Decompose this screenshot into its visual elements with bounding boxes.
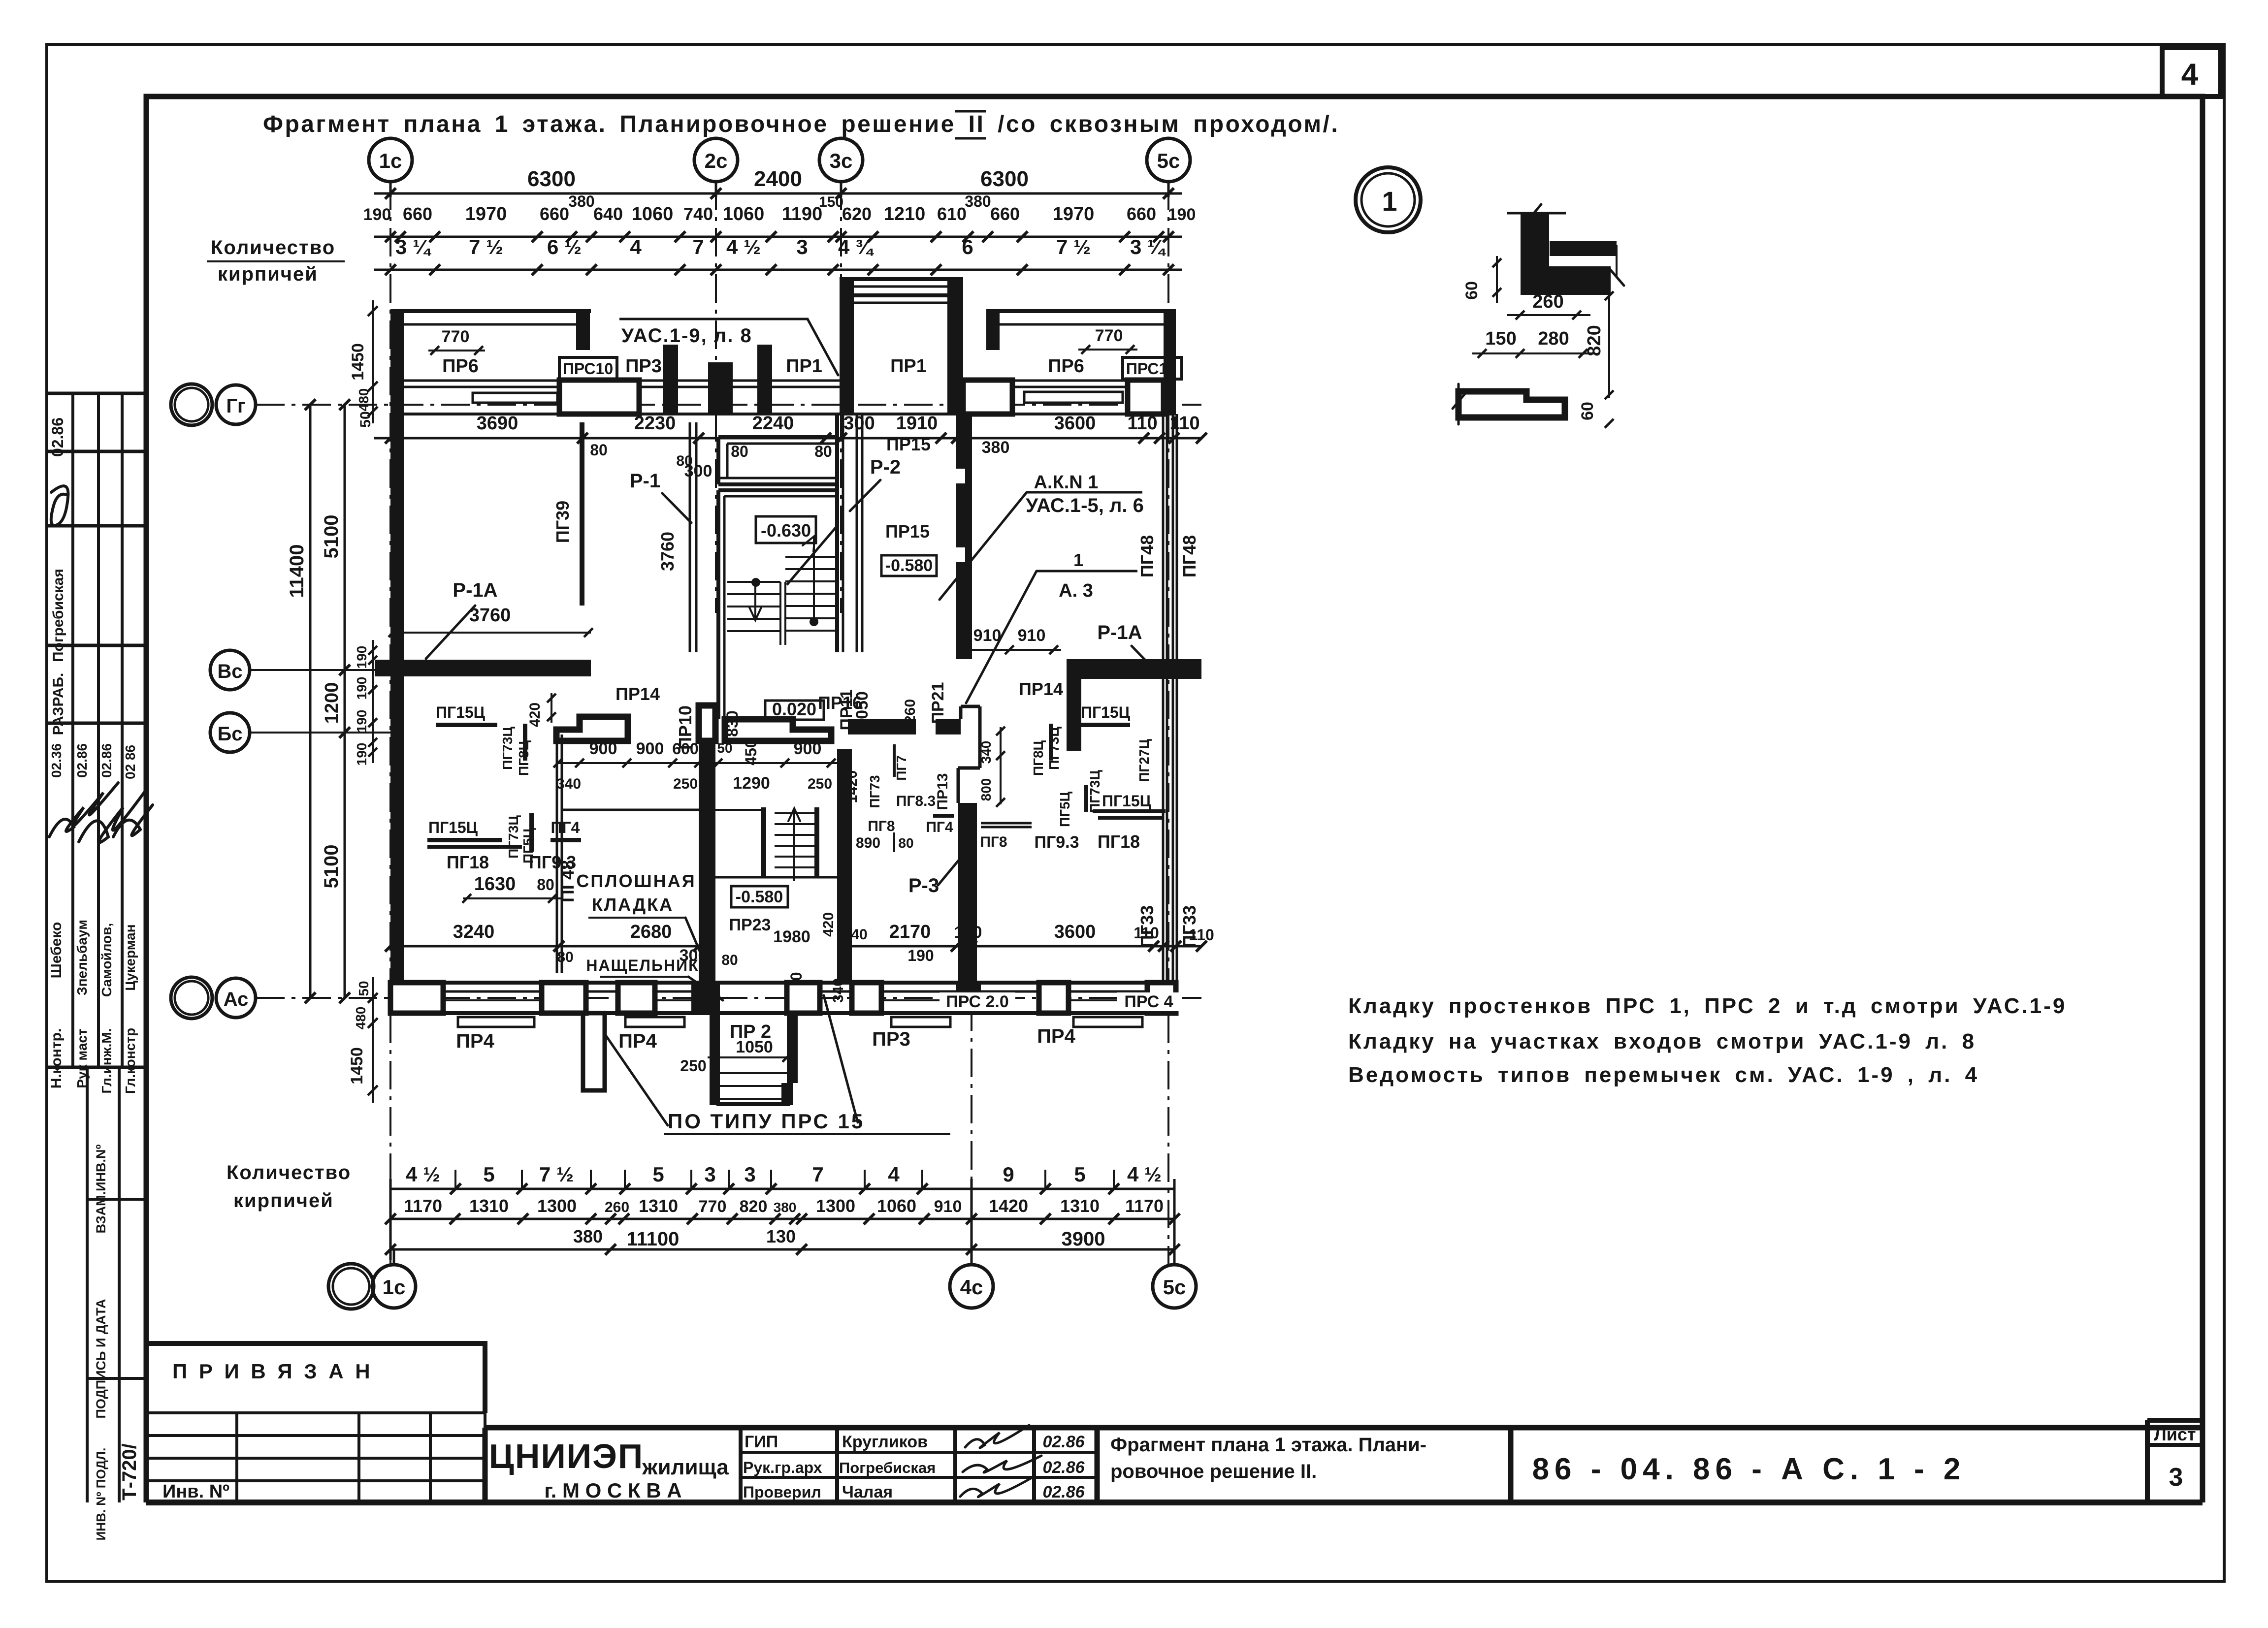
svg-text:2170: 2170 bbox=[889, 922, 931, 942]
svg-text:4: 4 bbox=[630, 235, 642, 258]
svg-text:4 ¾: 4 ¾ bbox=[838, 235, 874, 258]
elevation box -0.580 lower bbox=[731, 886, 788, 907]
bay 2 left wall bbox=[986, 311, 1000, 350]
wall right room divider bbox=[1067, 679, 1081, 751]
svg-text:80: 80 bbox=[898, 835, 913, 851]
top axis circles bbox=[369, 138, 412, 182]
window glazing 2c right bbox=[733, 380, 757, 382]
right exterior wall at 5c double thin lines bbox=[1162, 414, 1165, 659]
corridor wall R-1A left bbox=[375, 660, 591, 676]
left 190 sub chain bbox=[372, 640, 374, 763]
svg-text:5: 5 bbox=[652, 1163, 664, 1186]
svg-text:640: 640 bbox=[593, 204, 623, 224]
svg-text:Бс: Бс bbox=[218, 723, 243, 745]
svg-text:Самойлов,: Самойлов, bbox=[99, 923, 114, 997]
pier right of passage bbox=[963, 380, 1012, 414]
lower stair arrow bbox=[793, 810, 795, 881]
svg-text:ПР13: ПР13 bbox=[935, 773, 951, 810]
svg-text:660: 660 bbox=[403, 204, 432, 224]
svg-text:1310: 1310 bbox=[639, 1196, 678, 1216]
note UAS.1-9 l.8 bbox=[619, 318, 736, 320]
dim 770 left bay bbox=[428, 350, 485, 351]
svg-text:ЦНИИЭП: ЦНИИЭП bbox=[489, 1437, 644, 1475]
svg-text:5100: 5100 bbox=[321, 515, 342, 559]
pier at axis 2c bbox=[708, 362, 733, 414]
svg-text:3: 3 bbox=[744, 1163, 755, 1186]
pier under bay1 right wall bbox=[559, 380, 639, 414]
svg-text:1300: 1300 bbox=[816, 1196, 855, 1216]
door notches 4c wall bbox=[956, 469, 965, 483]
top band bottom edge bbox=[390, 413, 1176, 415]
svg-text:ПГ73Ц: ПГ73Ц bbox=[506, 815, 521, 859]
wall at 2c lower bbox=[699, 741, 715, 985]
svg-text:3900: 3900 bbox=[1062, 1228, 1105, 1250]
elevation box 0.020 bbox=[765, 701, 824, 720]
svg-text:1050: 1050 bbox=[736, 1038, 773, 1056]
svg-text:80: 80 bbox=[731, 443, 748, 460]
svg-text:4 ½: 4 ½ bbox=[406, 1163, 440, 1186]
svg-text:0.020: 0.020 bbox=[772, 699, 816, 719]
svg-text:40: 40 bbox=[851, 926, 867, 943]
window PR6 left glazing bbox=[404, 380, 559, 382]
svg-text:-0.630: -0.630 bbox=[761, 520, 811, 541]
axis dash-dot horizontals bbox=[256, 404, 1201, 406]
svg-text:ПГ15Ц: ПГ15Ц bbox=[1081, 703, 1131, 721]
svg-text:260: 260 bbox=[1532, 291, 1563, 312]
svg-text:ПР14: ПР14 bbox=[616, 684, 660, 704]
svg-text:890: 890 bbox=[856, 835, 880, 851]
svg-text:3: 3 bbox=[2169, 1463, 2183, 1492]
svg-text:610: 610 bbox=[937, 204, 967, 224]
corridor dim row 900 900 600 50 900 bbox=[558, 762, 837, 764]
svg-text:86 - 04. 86 - А С. 1 - 2: 86 - 04. 86 - А С. 1 - 2 bbox=[1532, 1452, 1966, 1486]
svg-text:3240: 3240 bbox=[453, 922, 495, 942]
top band bay 1 right wall bbox=[576, 311, 590, 350]
svg-text:Гл.констр: Гл.констр bbox=[123, 1028, 138, 1094]
roman numeral strokes bbox=[955, 110, 986, 113]
window PR1 left glazing bbox=[772, 380, 840, 382]
svg-text:ПР15: ПР15 bbox=[886, 434, 931, 454]
svg-text:190: 190 bbox=[354, 710, 369, 733]
corridor wall R-1A right bbox=[1067, 659, 1201, 679]
svg-text:80: 80 bbox=[721, 952, 738, 968]
svg-text:660: 660 bbox=[1127, 204, 1156, 224]
passage left wall bbox=[840, 279, 854, 414]
top chain brick count line bbox=[374, 269, 1182, 271]
stair upper left flight treads bbox=[727, 581, 780, 583]
svg-text:1170: 1170 bbox=[1125, 1196, 1164, 1216]
svg-text:ПГ8: ПГ8 bbox=[980, 834, 1007, 850]
svg-text:ПР4: ПР4 bbox=[618, 1030, 657, 1052]
svg-text:7: 7 bbox=[812, 1163, 823, 1186]
svg-text:А. 3: А. 3 bbox=[1059, 580, 1093, 601]
svg-text:480: 480 bbox=[356, 388, 371, 412]
detail right break tick bbox=[1609, 268, 1624, 286]
svg-text:190: 190 bbox=[363, 205, 391, 224]
svg-text:380: 380 bbox=[568, 192, 594, 210]
svg-text:1300: 1300 bbox=[537, 1196, 577, 1216]
svg-text:250: 250 bbox=[680, 1057, 706, 1075]
svg-text:3с: 3с bbox=[830, 149, 853, 172]
bottom axis circles bbox=[328, 1264, 374, 1309]
svg-text:1с: 1с bbox=[383, 1276, 406, 1299]
svg-text:380: 380 bbox=[573, 1226, 603, 1246]
bottom mm chain line bbox=[390, 1218, 1174, 1220]
svg-text:380: 380 bbox=[965, 192, 991, 210]
svg-text:740: 740 bbox=[683, 204, 713, 224]
dim 770 right bay bbox=[1078, 349, 1137, 351]
svg-text:ГИП: ГИП bbox=[745, 1433, 778, 1451]
svg-text:3760: 3760 bbox=[469, 605, 511, 626]
svg-text:1980: 1980 bbox=[773, 927, 810, 946]
bearing wall at 3c upper double bbox=[835, 414, 839, 652]
list cell bbox=[2147, 1418, 2203, 1423]
svg-text:02.86: 02.86 bbox=[49, 417, 66, 457]
svg-text:60: 60 bbox=[1578, 402, 1597, 420]
svg-text:1060: 1060 bbox=[723, 204, 765, 224]
svg-text:3 ¼: 3 ¼ bbox=[1130, 235, 1166, 258]
svg-text:ПГ8.3: ПГ8.3 bbox=[896, 793, 936, 809]
label PRS20 bbox=[940, 992, 1015, 1011]
left exterior wall bbox=[390, 414, 404, 660]
svg-text:3: 3 bbox=[796, 235, 808, 258]
svg-text:Гл.инж.М.: Гл.инж.М. bbox=[99, 1028, 114, 1094]
svg-text:ПГ4: ПГ4 bbox=[551, 819, 580, 836]
svg-text:190: 190 bbox=[954, 923, 982, 942]
svg-text:5с: 5с bbox=[1163, 1276, 1186, 1299]
bottom wall piers bbox=[390, 983, 443, 1013]
exit stair bottom edge bbox=[716, 1102, 790, 1106]
svg-text:1170: 1170 bbox=[404, 1196, 442, 1216]
svg-text:4 ½: 4 ½ bbox=[726, 235, 761, 258]
svg-text:г. М О С К В А: г. М О С К В А bbox=[544, 1479, 681, 1502]
window glazing 2c left bbox=[678, 380, 708, 382]
svg-text:3 ¼: 3 ¼ bbox=[395, 235, 431, 258]
svg-text:1с: 1с bbox=[379, 149, 402, 172]
pocket jog walls at 4c bbox=[959, 706, 963, 719]
svg-text:ПГ8Ц: ПГ8Ц bbox=[1031, 740, 1046, 776]
svg-text:УАС.1-9, л. 8: УАС.1-9, л. 8 bbox=[621, 325, 752, 347]
window sill block left bbox=[473, 393, 557, 403]
svg-text:ПГ48: ПГ48 bbox=[557, 860, 578, 902]
svg-text:Количество: Количество bbox=[227, 1162, 351, 1183]
svg-text:Кругликов: Кругликов bbox=[842, 1433, 928, 1451]
svg-text:420: 420 bbox=[527, 702, 543, 727]
sheet number box 4 bbox=[2162, 48, 2221, 96]
svg-text:380: 380 bbox=[982, 438, 1010, 457]
svg-text:Количество: Количество bbox=[211, 237, 335, 258]
svg-text:150: 150 bbox=[1485, 328, 1516, 349]
top chain axis spans line bbox=[374, 192, 1182, 195]
detail lower wall piece bbox=[1458, 391, 1565, 417]
svg-text:11100: 11100 bbox=[627, 1228, 680, 1250]
svg-text:ПР1: ПР1 bbox=[786, 356, 822, 377]
svg-text:А.К.N 1: А.К.N 1 bbox=[1034, 472, 1099, 493]
svg-text:900: 900 bbox=[589, 739, 617, 758]
svg-text:ровочное решение II.: ровочное решение II. bbox=[1110, 1461, 1317, 1482]
svg-text:1190: 1190 bbox=[782, 204, 822, 224]
detail dims 150 280 bbox=[1472, 352, 1595, 354]
svg-text:Проверил: Проверил bbox=[743, 1483, 821, 1501]
dim 800 340 small right bbox=[1000, 727, 1002, 804]
stairwell wall continuation to band bbox=[716, 652, 720, 719]
svg-text:900: 900 bbox=[636, 739, 664, 758]
svg-text:02.86: 02.86 bbox=[74, 743, 90, 778]
left axis circles bbox=[171, 384, 212, 425]
svg-text:380: 380 bbox=[774, 1200, 797, 1215]
dim row 3240 2680 bbox=[390, 945, 706, 948]
bottom wall sill blocks bbox=[458, 1017, 534, 1027]
svg-text:6300: 6300 bbox=[980, 167, 1029, 191]
detail upper right bar bbox=[1550, 241, 1617, 256]
detail dim 60 bottom bbox=[1605, 419, 1614, 428]
svg-text:ПГ15Ц: ПГ15Ц bbox=[436, 703, 486, 721]
svg-text:ПР6: ПР6 bbox=[442, 356, 479, 377]
svg-text:3: 3 bbox=[704, 1163, 715, 1186]
svg-text:190: 190 bbox=[354, 743, 369, 766]
left storey chain 5100 1200 5100 bbox=[344, 405, 346, 998]
dim line 3690 row bbox=[374, 437, 1201, 440]
svg-text:2400: 2400 bbox=[754, 167, 802, 191]
svg-text:480: 480 bbox=[353, 1007, 368, 1030]
top left small chain 1450 480 50 bbox=[372, 300, 374, 423]
exit stair walls bbox=[710, 1013, 720, 1105]
partition PG48 left apartment bbox=[556, 734, 558, 973]
central wall band right of stair bbox=[848, 719, 916, 734]
svg-text:Цукерман: Цукерман bbox=[123, 924, 138, 990]
svg-text:ПРС 4: ПРС 4 bbox=[1124, 992, 1173, 1011]
svg-text:Погребиская: Погребиская bbox=[839, 1459, 936, 1476]
svg-text:300: 300 bbox=[843, 413, 875, 434]
svg-text:ПРС10: ПРС10 bbox=[1126, 360, 1176, 378]
svg-text:УАС.1-5, л. 6: УАС.1-5, л. 6 bbox=[1026, 495, 1144, 516]
svg-text:Лист: Лист bbox=[2154, 1424, 2196, 1444]
lower stair enclosure bbox=[761, 807, 766, 877]
svg-text:340: 340 bbox=[556, 776, 581, 792]
passage right wall bbox=[947, 279, 963, 414]
stamp lower band cells bbox=[86, 1067, 89, 1502]
svg-text:ПР1: ПР1 bbox=[890, 356, 927, 377]
top band bay 1 top edge bbox=[390, 309, 591, 313]
svg-text:Зпельбаум: Зпельбаум bbox=[74, 920, 90, 995]
svg-text:ПР15: ПР15 bbox=[885, 521, 930, 542]
svg-text:ИНВ. Nº ПОДЛ.: ИНВ. Nº ПОДЛ. bbox=[94, 1448, 108, 1541]
svg-text:Погребиская: Погребиская bbox=[50, 569, 66, 662]
svg-text:02.86: 02.86 bbox=[1042, 1483, 1085, 1501]
bottom brick count line bbox=[390, 1188, 1174, 1190]
svg-text:1420: 1420 bbox=[989, 1196, 1028, 1216]
svg-text:ПГ18: ПГ18 bbox=[447, 852, 489, 872]
svg-text:300: 300 bbox=[684, 462, 713, 480]
svg-text:ПОДПИСЬ И ДАТА: ПОДПИСЬ И ДАТА bbox=[94, 1299, 108, 1418]
svg-text:50: 50 bbox=[717, 740, 732, 756]
svg-text:Р-2: Р-2 bbox=[870, 456, 901, 478]
svg-text:11400: 11400 bbox=[286, 544, 308, 598]
detail node circle 1 bbox=[1356, 167, 1421, 232]
svg-text:830: 830 bbox=[723, 710, 741, 736]
title block row lines bbox=[741, 1451, 1097, 1454]
pier stub left of passage bbox=[663, 345, 678, 414]
svg-text:Р-3: Р-3 bbox=[908, 875, 939, 896]
svg-text:ПГ27Ц: ПГ27Ц bbox=[1136, 739, 1152, 782]
svg-text:ПГ48: ПГ48 bbox=[1179, 535, 1199, 577]
svg-text:РАЗРАБ.: РАЗРАБ. bbox=[50, 673, 66, 735]
svg-text:-0.580: -0.580 bbox=[885, 556, 933, 575]
svg-text:ПГ73: ПГ73 bbox=[867, 775, 882, 808]
svg-text:Р-1А: Р-1А bbox=[1097, 622, 1142, 643]
svg-text:1450: 1450 bbox=[348, 1047, 366, 1085]
svg-text:3690: 3690 bbox=[477, 413, 518, 434]
svg-text:260: 260 bbox=[902, 699, 918, 724]
svg-text:250: 250 bbox=[673, 776, 698, 792]
svg-text:300: 300 bbox=[680, 946, 708, 965]
svg-text:660: 660 bbox=[540, 204, 569, 224]
stair upper right flight treads bbox=[785, 556, 837, 558]
svg-text:50: 50 bbox=[356, 981, 371, 996]
svg-text:1310: 1310 bbox=[1060, 1196, 1100, 1216]
stamp signature oval bbox=[51, 486, 68, 525]
svg-text:80: 80 bbox=[537, 876, 554, 894]
elevation box -0.580 upper bbox=[881, 555, 937, 576]
svg-text:02 86: 02 86 bbox=[123, 745, 138, 779]
svg-text:150: 150 bbox=[819, 194, 843, 210]
svg-text:130: 130 bbox=[766, 1226, 796, 1246]
pier stub right bbox=[757, 345, 772, 414]
partition right of 3c wall bbox=[856, 414, 858, 652]
svg-text:1630: 1630 bbox=[474, 874, 516, 894]
svg-text:1200: 1200 bbox=[322, 682, 342, 724]
svg-text:ПГ48: ПГ48 bbox=[1137, 535, 1157, 577]
svg-text:2240: 2240 bbox=[752, 413, 794, 434]
svg-text:ПРС10: ПРС10 bbox=[563, 360, 613, 378]
svg-text:770: 770 bbox=[442, 327, 470, 346]
title block verticals bbox=[483, 1428, 488, 1502]
svg-text:Шебеко: Шебеко bbox=[48, 922, 65, 979]
svg-text:190: 190 bbox=[354, 677, 369, 700]
svg-text:02.86: 02.86 bbox=[1042, 1458, 1085, 1477]
svg-text:4с: 4с bbox=[960, 1276, 983, 1299]
wall at 4c lower bbox=[958, 803, 977, 985]
svg-text:ПР23: ПР23 bbox=[729, 916, 771, 934]
svg-text:ПРС 2.0: ПРС 2.0 bbox=[946, 992, 1009, 1011]
detail dim 820 bbox=[1608, 296, 1610, 398]
detail top break tick bbox=[1507, 212, 1566, 215]
svg-text:Гг: Гг bbox=[226, 395, 245, 417]
svg-text:Т-720/: Т-720/ bbox=[119, 1443, 140, 1500]
svg-text:кирпичей: кирпичей bbox=[218, 263, 318, 285]
lower stair treads bbox=[775, 812, 814, 814]
dim row right 2170 3600 bbox=[837, 945, 1201, 948]
svg-text:Чалая: Чалая bbox=[842, 1483, 893, 1501]
stamp strip column lines bbox=[71, 393, 74, 1067]
svg-text:7: 7 bbox=[692, 235, 704, 258]
pier at 5c below bbox=[1128, 380, 1164, 414]
svg-text:ПГ5Ц: ПГ5Ц bbox=[1057, 791, 1072, 827]
svg-text:1210: 1210 bbox=[884, 204, 926, 224]
svg-text:820: 820 bbox=[740, 1197, 768, 1216]
svg-text:Вс: Вс bbox=[217, 661, 242, 682]
svg-text:Н.контр.: Н.контр. bbox=[48, 1028, 65, 1088]
detail lower left break bbox=[1453, 384, 1465, 424]
svg-text:ПГ73Ц: ПГ73Ц bbox=[1087, 770, 1102, 813]
inner drawing frame bbox=[146, 96, 2203, 1502]
privyazan box bbox=[146, 1343, 485, 1413]
svg-text:600: 600 bbox=[672, 740, 698, 758]
svg-text:ПГ39: ПГ39 bbox=[552, 501, 573, 543]
stairwell upper box walls bbox=[718, 488, 837, 492]
svg-text:ПР14: ПР14 bbox=[1019, 679, 1063, 699]
svg-text:1450: 1450 bbox=[349, 343, 367, 381]
svg-text:ПГ4: ПГ4 bbox=[926, 819, 953, 835]
svg-text:420: 420 bbox=[820, 912, 837, 937]
svg-text:1310: 1310 bbox=[469, 1196, 509, 1216]
svg-text:02.86: 02.86 bbox=[99, 743, 114, 778]
svg-text:Ведомость типов перемычек: Ведомость типов перемычек см. УАС. 1-9 ,… bbox=[1348, 1063, 1979, 1087]
corner wall at 5c top bbox=[1164, 311, 1176, 414]
svg-text:Инв. Nº: Инв. Nº bbox=[162, 1481, 229, 1502]
partition PG39 bbox=[580, 422, 584, 606]
lintel box PRS10 right bbox=[1123, 357, 1182, 379]
left total chain 11400 bbox=[309, 405, 312, 998]
svg-text:Р-1А: Р-1А bbox=[453, 579, 497, 601]
svg-text:02.36: 02.36 bbox=[49, 743, 64, 778]
window PR3 glazing bbox=[639, 380, 663, 382]
svg-text:ПГ73Ц: ПГ73Ц bbox=[1046, 727, 1062, 770]
dim 1050 exit bbox=[708, 1056, 793, 1058]
stamp signatures scribbles bbox=[49, 783, 118, 837]
bottom totals line bbox=[390, 1248, 1174, 1251]
svg-text:7 ½: 7 ½ bbox=[539, 1163, 574, 1186]
dim 910 910 bbox=[958, 649, 1061, 651]
porch stub bbox=[583, 1013, 605, 1090]
attach table bbox=[146, 1411, 485, 1414]
svg-text:ПГ8: ПГ8 bbox=[868, 818, 895, 834]
svg-text:Кладку простенков ПРС 1, П: Кладку простенков ПРС 1, ПРС 2 и т.д смо… bbox=[1348, 994, 2067, 1018]
bottom left small chain 50 480 1450 bbox=[372, 977, 374, 1103]
svg-text:80: 80 bbox=[557, 949, 573, 965]
svg-text:ПГ15Ц: ПГ15Ц bbox=[428, 819, 478, 836]
svg-text:ПГ7: ПГ7 bbox=[894, 755, 909, 781]
svg-text:1290: 1290 bbox=[733, 774, 770, 793]
svg-text:2680: 2680 bbox=[630, 922, 672, 942]
passage top double lines bbox=[840, 277, 963, 281]
svg-text:4: 4 bbox=[888, 1163, 900, 1186]
svg-text:910: 910 bbox=[934, 1197, 962, 1216]
axis dash-dot verticals bbox=[389, 182, 391, 1265]
svg-text:Фрагмент плана 1 этажа. Пла: Фрагмент плана 1 этажа. Планировочное ре… bbox=[263, 111, 1339, 137]
bottom chain long verticals bbox=[389, 1179, 392, 1260]
svg-text:1: 1 bbox=[1382, 186, 1397, 217]
svg-text:80: 80 bbox=[814, 443, 832, 460]
svg-text:80: 80 bbox=[590, 441, 608, 459]
svg-text:110: 110 bbox=[1134, 924, 1159, 942]
svg-text:П Р И В Я З А Н: П Р И В Я З А Н bbox=[172, 1360, 373, 1383]
signatures column bbox=[965, 1425, 1029, 1448]
svg-text:Р-1: Р-1 bbox=[630, 470, 660, 492]
svg-text:ПГ9.3: ПГ9.3 bbox=[1035, 833, 1079, 852]
svg-text:280: 280 bbox=[1538, 328, 1569, 349]
svg-text:340: 340 bbox=[978, 741, 994, 764]
svg-text:1970: 1970 bbox=[1053, 204, 1095, 224]
svg-text:02.86: 02.86 bbox=[1042, 1433, 1085, 1451]
svg-text:7 ½: 7 ½ bbox=[469, 235, 503, 258]
svg-text:6 ½: 6 ½ bbox=[547, 235, 582, 258]
svg-text:1910: 1910 bbox=[896, 413, 938, 434]
central wall band right piece outline bbox=[725, 719, 831, 741]
svg-text:Ас: Ас bbox=[224, 989, 249, 1010]
stamp strip row lines bbox=[47, 392, 146, 395]
svg-text:190: 190 bbox=[354, 646, 369, 669]
